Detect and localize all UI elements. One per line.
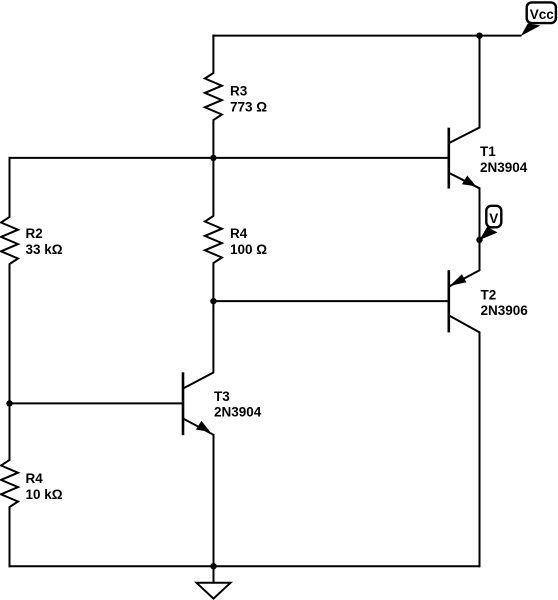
- svg-text:R3: R3: [230, 84, 248, 99]
- svg-text:T1: T1: [480, 144, 496, 159]
- svg-text:R4: R4: [26, 471, 44, 486]
- svg-text:10 kΩ: 10 kΩ: [26, 487, 63, 502]
- svg-text:R2: R2: [26, 226, 43, 241]
- svg-text:2N3906: 2N3906: [481, 303, 529, 318]
- svg-text:33 kΩ: 33 kΩ: [26, 242, 63, 257]
- svg-text:773 Ω: 773 Ω: [230, 100, 267, 115]
- svg-text:V: V: [489, 211, 498, 226]
- svg-text:T3: T3: [214, 389, 230, 404]
- svg-text:2N3904: 2N3904: [214, 405, 262, 420]
- svg-text:100 Ω: 100 Ω: [230, 242, 267, 257]
- svg-text:2N3904: 2N3904: [480, 160, 528, 175]
- svg-text:R4: R4: [230, 226, 248, 241]
- svg-text:Vcc: Vcc: [530, 7, 555, 22]
- svg-text:T2: T2: [481, 288, 497, 303]
